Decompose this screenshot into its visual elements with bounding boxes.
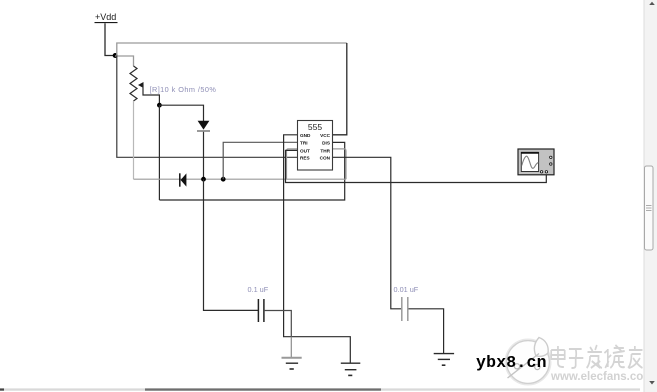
gray highlight rect <box>287 149 347 179</box>
diode D2 (left) cathode bar <box>179 173 181 186</box>
svg-text:0.1 uF: 0.1 uF <box>248 285 269 294</box>
svg-text:OUT: OUT <box>300 149 310 154</box>
op-amp U1 555 timer box <box>298 121 333 171</box>
potentiometer R1 zigzag <box>130 66 137 101</box>
wire GND pin down <box>284 135 351 363</box>
svg-text:GND: GND <box>300 133 311 138</box>
wire D1 to cap node <box>203 132 205 179</box>
wire pot bottom down <box>133 101 135 179</box>
wire TRI riser <box>223 142 297 179</box>
svg-text:555: 555 <box>308 122 322 132</box>
svg-text:+Vdd: +Vdd <box>95 12 116 22</box>
potentiometer R1 wiper arrow <box>138 82 144 88</box>
node wiper junction dot <box>157 103 162 108</box>
wire CON to C2 <box>333 157 402 308</box>
wire C2 to ground G3 <box>408 309 443 354</box>
horizontal scrollbar <box>0 388 640 390</box>
diode D1 (down) <box>198 121 210 130</box>
svg-text:DIS: DIS <box>322 141 330 146</box>
watermark logo circle <box>505 338 551 385</box>
wire Vdd to VCC rail (top) <box>117 43 347 56</box>
ground G3 <box>434 354 454 366</box>
svg-text:VCC: VCC <box>320 133 331 138</box>
vertical scrollbar <box>644 0 657 392</box>
svg-text:ybx8.cn: ybx8.cn <box>476 353 547 372</box>
scope connector circles <box>550 156 552 158</box>
node cap-node dot 1 <box>201 177 206 182</box>
ground G2 <box>341 363 361 375</box>
diode D2 (left) triangle <box>181 173 187 186</box>
wire wiper junction down <box>158 105 160 200</box>
wire Vdd stem <box>105 23 115 55</box>
wire VCC drop <box>333 43 347 135</box>
node +Vdd label <box>95 12 118 23</box>
wire wiper to DIS (bottom run) <box>159 142 344 200</box>
svg-text:TRI: TRI <box>300 141 308 146</box>
wire cap node down to C1 <box>204 179 259 310</box>
wire C1 right to G1 <box>264 311 291 337</box>
svg-text:www.elecfans.com: www.elecfans.com <box>550 371 653 383</box>
oscilloscope XSC1 <box>518 149 554 175</box>
wire OUT to scope <box>286 150 547 182</box>
capacitor C1 0.1uF plates <box>257 299 259 322</box>
wire wiper junction to D1 <box>159 105 203 121</box>
wire cap node row (gray) <box>134 178 347 180</box>
svg-text:0.01 uF: 0.01 uF <box>394 285 419 294</box>
wire Vdd down to RES <box>117 56 298 158</box>
wire Vdd to pot top <box>115 56 134 66</box>
capacitor C2 0.01uF plates <box>401 297 403 321</box>
wire wiper to junction <box>143 85 160 105</box>
svg-text:RES: RES <box>300 156 310 161</box>
node junction dot Vdd <box>113 53 118 58</box>
svg-text:[R]10 k Ohm /50%: [R]10 k Ohm /50% <box>150 85 217 94</box>
node cap-node dot 2 <box>221 177 226 182</box>
svg-text:CON: CON <box>320 156 331 161</box>
svg-text:THR: THR <box>320 149 330 154</box>
diode D1 cathode bar <box>197 130 210 132</box>
ground G1 <box>282 358 302 369</box>
